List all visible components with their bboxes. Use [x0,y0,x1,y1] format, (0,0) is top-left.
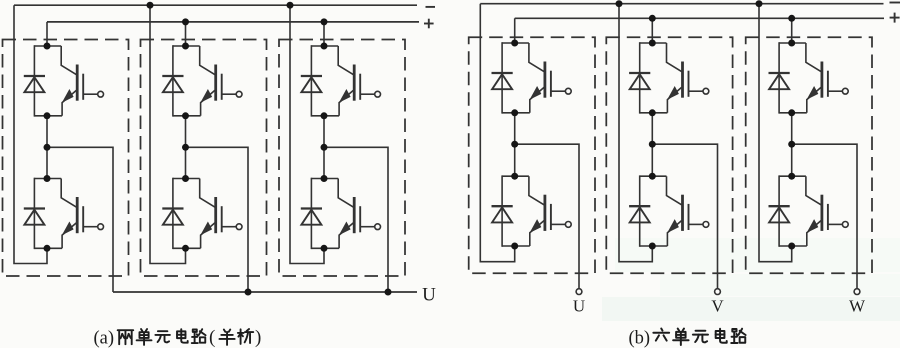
label + polarity (a) [424,19,434,29]
node -bus junction phase W (b) [756,0,763,7]
svg-text:W: W [849,297,866,316]
wire +bus feed to phase leg U (b) [514,18,516,43]
wire unit Vb2T diode branch (left side) [639,42,641,113]
module M3 dashed outline (figure a, half-bridge unit) [279,40,405,277]
transistor Vb3B (IGBT) [806,176,828,246]
svg-text:U: U [573,297,585,316]
wire midpoint link module M1 (a) [46,116,48,179]
gate terminal Vb3T [842,88,848,94]
diode VDb1B (anti-parallel free-wheeling diode) [492,206,513,222]
node Vb2B emitter junction [649,243,656,250]
svg-text:(a): (a) [94,328,115,348]
wire gate lead Va3B [360,226,374,228]
transistor Va2B (IGBT) [200,179,222,249]
wire positive DC bus (b) [515,17,884,19]
wire unit Va2B diode branch (left side) [172,178,174,249]
module M4 dashed outline (figure b, phase leg) [469,37,595,273]
node -bus junction module M2 (a) [147,2,154,9]
node Va2T collector junction [182,43,189,50]
diode VDb2B (anti-parallel free-wheeling diode) [629,206,650,222]
node Vb2T collector junction [649,40,656,47]
wire +bus feed to module M3 collector (a) [323,22,325,46]
wire unit Vb1B bottom rail [502,245,530,247]
terminal U (b) [576,289,582,295]
diode VDa2T (anti-parallel free-wheeling diode) [162,76,183,92]
node Va2T emitter junction [182,112,189,119]
module M5 dashed outline (figure b, phase leg) [606,37,732,273]
diode VDa3B (anti-parallel free-wheeling diode) [301,209,322,225]
wire +bus feed to phase leg V (b) [651,18,653,43]
transistor Vb3T (IGBT) [806,43,828,113]
wire unit Va3B bottom rail [311,247,339,249]
node Va1B emitter junction [44,245,51,252]
svg-text:V: V [711,297,724,316]
label - polarity (a) [426,6,436,8]
wire unit Vb1B diode branch (left side) [501,175,503,246]
wire gate lead Va1B [83,226,97,228]
gate terminal Va3B [375,224,381,230]
wire gate lead Va1T [83,93,97,95]
wire -bus return of phase leg U (b) [480,4,514,262]
node midpoint junction phase V (b) [649,141,656,148]
wire unit Vb2B top rail [640,175,667,177]
wire unit Va3B top rail [311,178,338,180]
node U bus junction module M2 (a) [245,289,252,296]
node Va3B emitter junction [321,245,328,252]
node Va1T emitter junction [44,112,51,119]
node Va2B emitter junction [182,245,189,252]
wire midpoint of module M1 to U bus (a) [47,147,113,292]
gate terminal Vb1T [565,88,571,94]
wire midpoint to output terminal U (b) [515,144,579,288]
wire gate lead Va3T [360,93,374,95]
module M6 dashed outline (figure b, phase leg) [746,37,872,273]
svg-text:(: ( [209,327,215,348]
wire unit Vb3B diode branch (left side) [778,175,780,246]
gate terminal Vb1B [565,222,571,228]
gate terminal Va1B [98,224,104,230]
gate terminal Va2T [236,91,242,97]
wire midpoint to output terminal V (b) [652,144,717,288]
wire gate lead Vb2B [689,223,703,225]
diode VDb3B (anti-parallel free-wheeling diode) [769,206,790,222]
node midpoint junction module M3 (a) [321,144,328,151]
wire unit Vb3T diode branch (left side) [778,42,780,113]
wire unit Va2B bottom rail [173,247,201,249]
node Vb3T emitter junction [788,109,795,116]
wire unit Vb3T top rail [779,42,806,44]
node Va1T collector junction [44,43,51,50]
gate terminal Vb2B [703,222,709,228]
node +bus junction module M3 (a) [321,18,328,25]
diode VDa1B (anti-parallel free-wheeling diode) [24,209,45,225]
wire unit Va3T bottom rail [311,115,339,117]
node Va3T emitter junction [321,112,328,119]
wire U output bus (a) [113,291,417,293]
wire unit Va2T top rail [173,45,200,47]
svg-text:): ) [255,327,261,348]
node Va3B collector junction [321,175,328,182]
label + polarity (b) [890,13,900,23]
node Vb1T emitter junction [511,109,518,116]
wire unit Va1T diode branch (left side) [33,45,35,116]
wire -bus return of phase leg V (b) [619,4,652,262]
node -bus junction module M3 (a) [287,2,294,9]
gate terminal Va1T [98,91,104,97]
transistor Vb1B (IGBT) [529,176,551,246]
wire gate lead Va2B [222,226,236,228]
wire unit Vb1T top rail [502,42,529,44]
wire midpoint link phase W (b) [791,113,793,176]
wire unit Va3T top rail [311,45,338,47]
wire gate lead Vb2T [689,90,703,92]
node Va3T collector junction [321,43,328,50]
node +bus junction phase W (b) [788,15,795,22]
module M2 dashed outline (figure a, half-bridge unit) [141,40,267,277]
caption (a): (a) two-unit circuit (half-bridge) [94,327,262,348]
diode VDb3T (anti-parallel free-wheeling diode) [769,73,790,89]
node midpoint junction phase U (b) [511,141,518,148]
wire midpoint link phase V (b) [651,113,653,176]
wire unit Vb1B top rail [502,175,529,177]
gate terminal Vb3B [842,222,848,228]
wire unit Va1B top rail [34,178,61,180]
node U bus junction module M3 (a) [385,289,392,296]
node Va1B collector junction [44,175,51,182]
node Vb1B emitter junction [511,243,518,250]
svg-text:(b): (b) [629,329,651,349]
wire unit Va1B diode branch (left side) [33,178,35,249]
wire +bus feed to module M1 collector (a) [46,22,48,46]
label - polarity (b) [890,2,900,4]
wire negative DC bus (a) [14,4,417,6]
caption (b): (b) six-unit circuit [629,329,746,349]
node Vb2B collector junction [649,173,656,180]
wire negative DC bus (b) [480,3,883,5]
node Vb3T collector junction [788,40,795,47]
wire midpoint of module M2 to U bus (a) [186,147,249,292]
wire gate lead Vb3B [828,223,842,225]
gate terminal Va3T [375,91,381,97]
wire -bus return of phase leg W (b) [759,4,792,262]
wire unit Va1B bottom rail [34,247,62,249]
node -bus junction phase V (b) [616,0,623,7]
node +bus junction phase V (b) [649,15,656,22]
wire unit Vb3B top rail [779,175,806,177]
wire unit Va1T bottom rail [34,115,62,117]
node Vb3B emitter junction [788,243,795,250]
wire unit Va3B diode branch (left side) [310,178,312,249]
node +bus junction module M2 (a) [182,18,189,25]
wire unit Va2T diode branch (left side) [172,45,174,116]
wire gate lead Vb1T [551,90,565,92]
wire +bus feed to phase leg W (b) [791,18,793,43]
node Vb3B collector junction [788,173,795,180]
module M1 dashed outline (figure a, half-bridge unit) [3,40,129,277]
wire gate lead Vb3T [828,90,842,92]
wire unit Vb2T top rail [640,42,667,44]
node Vb2T emitter junction [649,109,656,116]
diode VDb2T (anti-parallel free-wheeling diode) [629,73,650,89]
diode VDa3T (anti-parallel free-wheeling diode) [301,76,322,92]
wire unit Va2T bottom rail [173,115,201,117]
wire unit Vb2T bottom rail [640,112,668,114]
wire midpoint of module M3 to U bus (a) [324,147,388,292]
wire -bus return of module M1 (a) [14,5,47,263]
wire unit Vb2B diode branch (left side) [639,175,641,246]
wire unit Vb1T bottom rail [502,112,530,114]
wire unit Vb1T diode branch (left side) [501,42,503,113]
transistor Va1T (IGBT) [61,46,83,116]
wire +bus feed to module M2 collector (a) [185,22,187,46]
wire midpoint link phase U (b) [514,113,516,176]
diode VDb1T (anti-parallel free-wheeling diode) [492,73,513,89]
node Vb1B collector junction [511,173,518,180]
wire gate lead Vb1B [551,223,565,225]
node midpoint junction module M2 (a) [182,144,189,151]
wire midpoint link module M3 (a) [323,116,325,179]
gate terminal Va2B [236,224,242,230]
terminal W (b) [854,289,860,295]
wire -bus return of module M3 (a) [290,5,324,263]
wire unit Vb2B bottom rail [640,245,668,247]
wire unit Va1T top rail [34,45,61,47]
wire gate lead Va2T [222,93,236,95]
wire midpoint link module M2 (a) [185,116,187,179]
transistor Va2T (IGBT) [200,46,222,116]
gate terminal Vb2T [703,88,709,94]
transistor Vb2B (IGBT) [667,176,689,246]
wire unit Vb3B bottom rail [779,245,807,247]
wire unit Va2B top rail [173,178,200,180]
diode VDa2B (anti-parallel free-wheeling diode) [162,209,183,225]
wire positive DC bus (a) [47,21,419,23]
transistor Vb2T (IGBT) [667,43,689,113]
wire -bus return of module M2 (a) [150,5,186,263]
node Vb1T collector junction [511,40,518,47]
svg-text:U: U [422,285,436,306]
diode VDa1T (anti-parallel free-wheeling diode) [24,76,45,92]
wire unit Vb3T bottom rail [779,112,807,114]
transistor Va3B (IGBT) [338,179,360,249]
wire midpoint to output terminal W (b) [792,144,857,288]
transistor Va1B (IGBT) [61,179,83,249]
transistor Vb1T (IGBT) [529,43,551,113]
node midpoint junction phase W (b) [788,141,795,148]
terminal V (b) [715,289,721,295]
node Va2B collector junction [182,175,189,182]
transistor Va3T (IGBT) [338,46,360,116]
node midpoint junction module M1 (a) [44,144,51,151]
wire unit Va3T diode branch (left side) [310,45,312,116]
